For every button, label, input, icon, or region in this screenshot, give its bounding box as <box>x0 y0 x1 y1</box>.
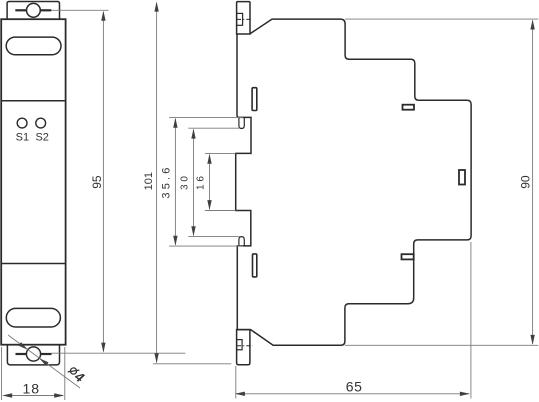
svg-text:30: 30 <box>179 173 190 190</box>
svg-text:101: 101 <box>143 172 155 190</box>
svg-text:90: 90 <box>518 175 532 189</box>
svg-text:95: 95 <box>90 175 104 189</box>
svg-text:65: 65 <box>346 378 363 394</box>
svg-text:S1: S1 <box>16 131 29 143</box>
svg-text:S2: S2 <box>35 131 48 143</box>
svg-text:18: 18 <box>23 380 41 396</box>
svg-text:16: 16 <box>195 173 206 190</box>
svg-text:35.6: 35.6 <box>161 164 173 198</box>
